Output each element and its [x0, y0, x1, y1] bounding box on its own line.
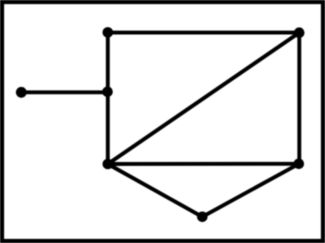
wire A-B (top horizontal) [108, 31, 299, 35]
wire G-F (lower-right diagonal) [202, 164, 299, 217]
wire B-E (main diagonal) [108, 33, 299, 164]
node F [294, 159, 305, 170]
node E [103, 159, 114, 170]
wire C-D (left stub horizontal) [21, 90, 108, 94]
node C [16, 87, 27, 98]
wire E-F (bottom horizontal) [108, 162, 299, 166]
wire B-F (right vertical) [297, 33, 301, 164]
wire A-E (left vertical) [106, 33, 110, 164]
node G [197, 212, 208, 223]
node B [294, 27, 305, 38]
wire E-G (lower-left diagonal) [108, 164, 203, 217]
node D [102, 87, 113, 98]
node A [103, 27, 114, 38]
